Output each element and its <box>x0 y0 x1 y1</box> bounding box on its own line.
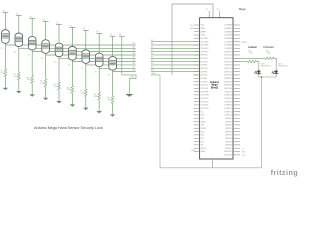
svg-text:S9: S9 <box>108 75 110 77</box>
svg-text:D36/PC1: D36/PC1 <box>224 71 232 73</box>
svg-text:A7/PF7: A7/PF7 <box>225 140 231 143</box>
svg-text:D37/PC0: D37/PC0 <box>224 75 232 77</box>
svg-text:RESET: RESET <box>242 42 249 44</box>
svg-text:GND: GND <box>242 152 247 154</box>
svg-text:Mega: Mega <box>239 7 246 11</box>
svg-text:RED(633nm): RED(633nm) <box>278 65 288 67</box>
svg-text:GND: GND <box>201 35 206 37</box>
svg-text:RED(633nm): RED(633nm) <box>261 65 271 67</box>
svg-text:A9/PK1: A9/PK1 <box>225 147 231 150</box>
svg-text:SCL: SCL <box>201 25 205 27</box>
svg-text:A2: A2 <box>151 49 153 52</box>
svg-text:D52: D52 <box>201 138 204 140</box>
svg-text:3V3: 3V3 <box>201 118 204 120</box>
svg-text:A8/PK0: A8/PK0 <box>225 144 231 147</box>
svg-text:MISO: MISO <box>201 151 206 153</box>
svg-text:D21/PD0: D21/PD0 <box>201 108 209 110</box>
svg-text:A11/PK3: A11/PK3 <box>224 154 231 157</box>
svg-text:SCL: SCL <box>190 25 194 27</box>
svg-text:GND1: GND1 <box>201 121 206 123</box>
svg-text:D31/PC6: D31/PC6 <box>224 55 232 57</box>
svg-text:S4: S4 <box>41 58 43 60</box>
svg-text:D22/PA0: D22/PA0 <box>224 24 231 27</box>
svg-text:D28/PA6: D28/PA6 <box>224 44 231 47</box>
svg-text:MOSI: MOSI <box>201 148 206 150</box>
svg-text:A4/PF4: A4/PF4 <box>225 130 231 133</box>
svg-text:D27/PA5: D27/PA5 <box>224 40 231 43</box>
svg-text:S1: S1 <box>1 48 3 50</box>
svg-text:D9/PH6: D9/PH6 <box>201 51 208 53</box>
svg-text:A0: A0 <box>151 42 153 45</box>
svg-text:D20/PD1: D20/PD1 <box>201 105 209 107</box>
svg-text:D47/PL2: D47/PL2 <box>224 108 231 110</box>
svg-text:D50: D50 <box>201 131 204 133</box>
svg-text:D49/PL0: D49/PL0 <box>224 115 231 117</box>
svg-text:D44/PL5: D44/PL5 <box>224 98 231 100</box>
svg-text:D15/PJ0: D15/PJ0 <box>201 88 208 90</box>
svg-text:S6: S6 <box>68 65 70 67</box>
svg-text:D33/PC4: D33/PC4 <box>224 61 232 63</box>
svg-text:S7: S7 <box>81 68 83 70</box>
svg-text:A1: A1 <box>151 45 153 48</box>
svg-text:S8: S8 <box>95 71 97 73</box>
svg-text:D53: D53 <box>201 141 204 143</box>
svg-text:D42/PL7: D42/PL7 <box>224 91 231 93</box>
svg-text:GND2: GND2 <box>201 128 206 130</box>
svg-text:D46/PL3: D46/PL3 <box>224 105 231 107</box>
svg-text:D25/PA3: D25/PA3 <box>224 34 231 37</box>
svg-text:A2: A2 <box>133 49 135 52</box>
svg-text:D18/PD3: D18/PD3 <box>201 98 209 100</box>
svg-text:A7: A7 <box>151 65 153 68</box>
svg-text:A6: A6 <box>133 62 135 65</box>
svg-text:A4: A4 <box>151 55 153 58</box>
svg-text:A4: A4 <box>133 55 135 58</box>
svg-text:D17/PH0: D17/PH0 <box>201 95 209 97</box>
svg-text:D40/PG1: D40/PG1 <box>224 85 232 87</box>
svg-text:A3: A3 <box>151 52 153 55</box>
svg-text:A2/PF2: A2/PF2 <box>225 124 231 127</box>
svg-text:A3: A3 <box>133 52 135 55</box>
svg-text:locked: locked <box>248 45 257 49</box>
svg-text:D6/PH3: D6/PH3 <box>201 61 208 63</box>
svg-text:D34/PC3: D34/PC3 <box>224 65 232 67</box>
svg-text:A5: A5 <box>151 59 153 62</box>
svg-text:Arduino Mega Hand Sensor Secur: Arduino Mega Hand Sensor Security Lock <box>34 126 103 130</box>
svg-text:A8: A8 <box>133 69 135 72</box>
svg-text:S2: S2 <box>14 51 16 53</box>
svg-text:D0/PE0: D0/PE0 <box>201 81 208 83</box>
svg-text:D39/PG2: D39/PG2 <box>224 81 232 83</box>
svg-text:D7/PH4: D7/PH4 <box>201 58 208 60</box>
svg-text:D12/PB6: D12/PB6 <box>201 41 209 43</box>
svg-text:D23/PA1: D23/PA1 <box>224 27 231 30</box>
svg-text:D35/PC2: D35/PC2 <box>224 68 232 70</box>
svg-text:D43/PL6: D43/PL6 <box>224 95 231 97</box>
svg-text:GND: GND <box>191 150 196 152</box>
svg-text:D10/PB4: D10/PB4 <box>201 48 209 50</box>
svg-text:D11/PB5: D11/PB5 <box>201 45 208 47</box>
svg-text:(Rev3): (Rev3) <box>211 86 219 89</box>
svg-text:D26/PA4: D26/PA4 <box>224 37 231 40</box>
svg-text:D41/PG0: D41/PG0 <box>224 88 232 90</box>
svg-text:A6: A6 <box>151 62 153 65</box>
svg-text:A5/PF5: A5/PF5 <box>225 134 231 137</box>
svg-text:D5/PE3: D5/PE3 <box>201 65 208 67</box>
svg-text:S5: S5 <box>54 61 56 63</box>
svg-text:D3/PE5: D3/PE5 <box>201 71 208 73</box>
svg-text:D32/PC5: D32/PC5 <box>224 58 232 60</box>
svg-text:D8/PH5: D8/PH5 <box>201 55 208 57</box>
svg-text:A7: A7 <box>133 65 135 68</box>
svg-text:D29/PA7: D29/PA7 <box>224 47 231 50</box>
svg-text:A5: A5 <box>133 59 135 62</box>
svg-text:D24/PA2: D24/PA2 <box>224 30 231 33</box>
svg-text:A1: A1 <box>133 45 135 48</box>
svg-text:D45/PL4: D45/PL4 <box>224 101 231 103</box>
svg-text:D51: D51 <box>201 135 204 137</box>
svg-text:A6/PF6: A6/PF6 <box>225 137 231 140</box>
svg-text:D38/PD7: D38/PD7 <box>224 78 232 80</box>
svg-text:D48/PL1: D48/PL1 <box>224 111 231 113</box>
svg-text:D19/PD2: D19/PD2 <box>201 101 209 103</box>
svg-text:D4/PG5: D4/PG5 <box>201 68 208 70</box>
svg-text:D14/PJ1: D14/PJ1 <box>201 85 208 87</box>
svg-text:D16/PH1: D16/PH1 <box>201 91 209 93</box>
svg-text:A8: A8 <box>151 69 153 72</box>
svg-text:AREF: AREF <box>201 30 207 33</box>
svg-text:Unlocked: Unlocked <box>263 45 274 49</box>
svg-text:fritzing: fritzing <box>271 168 299 177</box>
svg-text:D2/PE4: D2/PE4 <box>201 75 208 77</box>
svg-text:A3/PF3: A3/PF3 <box>225 127 231 130</box>
svg-text:A10/PK2: A10/PK2 <box>224 150 231 153</box>
svg-text:D1/PE1: D1/PE1 <box>201 78 208 80</box>
svg-text:A0: A0 <box>133 42 135 45</box>
svg-text:A0/PF0: A0/PF0 <box>225 117 231 120</box>
svg-text:S3: S3 <box>28 55 30 57</box>
svg-text:A1/PF1: A1/PF1 <box>225 120 231 123</box>
svg-text:D13/PB7: D13/PB7 <box>201 38 209 40</box>
svg-text:D30/PC7: D30/PC7 <box>224 51 232 53</box>
